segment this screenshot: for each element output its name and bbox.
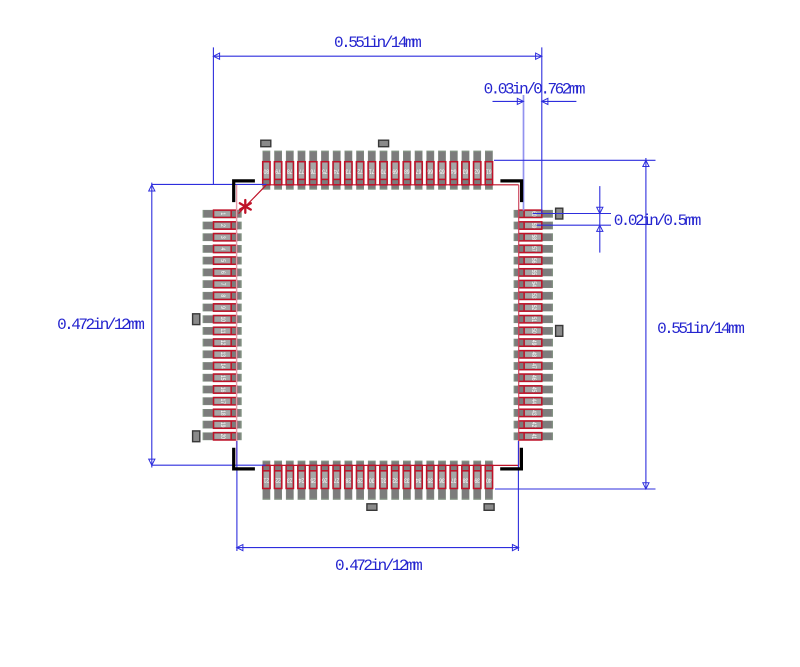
svg-text:54: 54	[530, 281, 537, 287]
svg-text:31: 31	[381, 476, 386, 483]
svg-text:61: 61	[486, 167, 491, 174]
svg-text:38: 38	[463, 476, 468, 483]
svg-text:0.551in/14mm: 0.551in/14mm	[334, 34, 421, 52]
svg-text:16: 16	[219, 387, 226, 392]
svg-text:32: 32	[392, 476, 397, 483]
svg-text:24: 24	[298, 476, 304, 483]
svg-text:71: 71	[369, 167, 374, 174]
svg-text:62: 62	[474, 167, 479, 174]
svg-text:45: 45	[530, 387, 537, 392]
svg-text:50: 50	[530, 328, 537, 333]
svg-text:12: 12	[219, 340, 226, 345]
svg-text:67: 67	[416, 167, 421, 174]
svg-text:25: 25	[310, 476, 315, 483]
svg-text:74: 74	[333, 167, 339, 174]
svg-text:36: 36	[439, 476, 444, 483]
svg-text:47: 47	[530, 363, 537, 368]
svg-text:27: 27	[334, 476, 339, 483]
svg-text:34: 34	[415, 476, 421, 483]
svg-text:43: 43	[530, 410, 537, 415]
svg-text:79: 79	[275, 167, 280, 174]
svg-text:44: 44	[530, 398, 537, 404]
svg-text:14: 14	[219, 363, 226, 369]
svg-text:66: 66	[428, 167, 433, 174]
svg-text:29: 29	[357, 476, 362, 483]
svg-text:28: 28	[346, 476, 351, 483]
svg-text:69: 69	[392, 167, 397, 174]
svg-text:59: 59	[530, 223, 537, 228]
svg-text:2: 2	[219, 224, 226, 227]
svg-text:26: 26	[322, 476, 327, 483]
svg-text:80: 80	[264, 167, 269, 174]
svg-text:5: 5	[219, 259, 226, 262]
svg-text:0.472in/12mm: 0.472in/12mm	[335, 557, 422, 575]
svg-text:51: 51	[530, 316, 537, 321]
svg-text:0.03in/0.762mm: 0.03in/0.762mm	[484, 80, 585, 98]
svg-text:0.472in/12mm: 0.472in/12mm	[57, 316, 144, 334]
svg-text:55: 55	[530, 270, 537, 275]
svg-text:35: 35	[428, 476, 433, 483]
svg-text:18: 18	[219, 410, 226, 415]
svg-text:72: 72	[357, 167, 362, 174]
svg-text:65: 65	[439, 167, 444, 174]
svg-text:73: 73	[346, 167, 351, 174]
svg-text:13: 13	[219, 352, 226, 357]
svg-text:21: 21	[264, 476, 269, 483]
svg-text:57: 57	[530, 246, 537, 251]
svg-text:23: 23	[287, 476, 292, 483]
svg-text:46: 46	[530, 375, 537, 380]
svg-text:22: 22	[275, 476, 280, 483]
svg-text:75: 75	[322, 167, 327, 174]
svg-text:39: 39	[474, 476, 479, 483]
svg-text:63: 63	[463, 167, 468, 174]
svg-text:6: 6	[219, 271, 226, 274]
svg-text:78: 78	[287, 167, 292, 174]
svg-text:42: 42	[530, 422, 537, 427]
svg-text:70: 70	[381, 167, 386, 174]
svg-text:58: 58	[530, 234, 537, 239]
svg-text:0.02in/0.5mm: 0.02in/0.5mm	[614, 212, 701, 230]
svg-text:30: 30	[369, 476, 374, 483]
svg-text:49: 49	[530, 340, 537, 345]
svg-text:8: 8	[219, 294, 226, 297]
svg-text:52: 52	[530, 305, 537, 310]
svg-text:19: 19	[219, 422, 226, 427]
svg-text:15: 15	[219, 375, 226, 380]
svg-text:41: 41	[530, 434, 537, 439]
svg-text:76: 76	[310, 167, 315, 174]
svg-text:40: 40	[486, 476, 491, 483]
svg-text:64: 64	[450, 167, 456, 174]
svg-text:53: 53	[530, 293, 537, 298]
svg-text:10: 10	[219, 316, 226, 321]
svg-text:77: 77	[299, 167, 304, 174]
svg-text:17: 17	[219, 398, 226, 403]
svg-text:37: 37	[451, 476, 456, 483]
svg-text:48: 48	[530, 352, 537, 357]
svg-text:11: 11	[219, 328, 226, 333]
svg-text:20: 20	[219, 434, 226, 439]
svg-text:3: 3	[219, 236, 226, 239]
svg-text:33: 33	[404, 476, 409, 483]
svg-text:0.551in/14mm: 0.551in/14mm	[657, 320, 744, 338]
svg-text:68: 68	[404, 167, 409, 174]
svg-text:56: 56	[530, 258, 537, 263]
svg-text:7: 7	[219, 283, 226, 286]
svg-text:9: 9	[219, 306, 226, 309]
svg-text:1: 1	[219, 212, 226, 215]
